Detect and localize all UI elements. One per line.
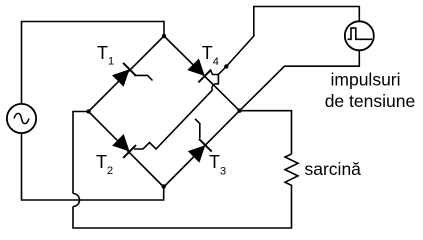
node top [162, 34, 166, 38]
wire T3 gate stub [195, 119, 200, 138]
node bottom [162, 184, 166, 188]
thyristor T4 [187, 59, 211, 83]
svg-text:T3: T3 [209, 152, 226, 178]
wire AC bottom to bottom node [22, 133, 164, 200]
wire bridge arm T2 (left node to bottom node) [89, 112, 164, 188]
wire pulse source bottom to right node [240, 50, 360, 110]
wire bridge arm T3 (bottom node to right node) [164, 111, 240, 187]
wire T1 gate stub [134, 75, 153, 80]
svg-text:sarcină: sarcină [305, 159, 362, 179]
svg-text:impulsuri: impulsuri [331, 69, 401, 89]
node right [237, 109, 241, 113]
thyristor T3 [188, 139, 212, 163]
wire right node to load top [240, 111, 292, 154]
pulse source G1 [345, 21, 374, 50]
svg-text:de tensiune: de tensiune [325, 91, 416, 111]
svg-text:T4: T4 [202, 43, 219, 68]
thyristor T1 [112, 63, 136, 87]
wire bridge arm T1 (top node to left node) [89, 36, 165, 112]
svg-text:T1: T1 [97, 43, 114, 68]
wire T4 gate to riser [211, 70, 219, 74]
thyristor T2 [112, 134, 136, 158]
wire left node to load bottom (with hop) [73, 112, 89, 194]
node gate junction [224, 64, 228, 68]
wire pulse source top to gate junction [226, 7, 359, 67]
wire top loop from top node to AC source [22, 22, 165, 105]
node left [86, 109, 90, 113]
wire bridge arm T4 (top node to right node) [164, 36, 240, 111]
AC source V1 [7, 104, 36, 133]
wire T2 gate to junction (with hop over T4 arm) [134, 90, 212, 149]
resistor sarcina (load) [285, 154, 298, 188]
svg-text:T2: T2 [96, 152, 113, 177]
